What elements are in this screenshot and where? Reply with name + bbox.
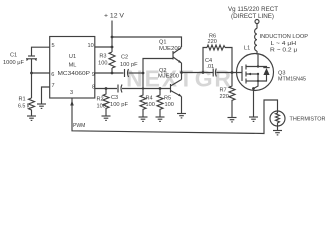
svg-text:C3: C3 xyxy=(111,95,118,101)
ground under thermistor xyxy=(273,131,282,135)
svg-text:L ~ 4 μH: L ~ 4 μH xyxy=(271,41,297,47)
ground under Q3 source xyxy=(249,117,258,121)
node junction dot C1 xyxy=(30,72,33,75)
wire R3 bottom to line A xyxy=(111,68,113,73)
mosfet Q3 drain stub xyxy=(246,55,258,67)
svg-text:U1: U1 xyxy=(69,54,76,60)
wire +12V rail down xyxy=(111,37,113,52)
wire top rail to Q1 collector xyxy=(112,37,182,47)
node junction dot C2 right xyxy=(142,72,145,75)
resistor R1 xyxy=(29,98,35,116)
svg-text:R3: R3 xyxy=(99,54,106,60)
ground under R4 xyxy=(139,117,148,121)
svg-text:NEXTGR: NEXTGR xyxy=(126,66,233,92)
arrowhead PWM up xyxy=(70,101,74,106)
mosfet Q3 source internal wire xyxy=(254,74,259,89)
wire pin10 stub xyxy=(95,46,112,48)
transistor Q2 xyxy=(170,84,172,93)
svg-text:220: 220 xyxy=(220,94,229,100)
svg-text:C1: C1 xyxy=(10,53,17,59)
resistor R7 xyxy=(229,73,235,118)
svg-text:R ~ 0.2 μ: R ~ 0.2 μ xyxy=(270,48,297,54)
mosfet Q3 channel segments xyxy=(245,65,247,70)
ground under Q2 xyxy=(177,114,186,118)
node junction dot lineA rail xyxy=(111,72,114,75)
node junction dot source xyxy=(252,87,255,90)
svg-text:9: 9 xyxy=(92,72,95,78)
node junction dot R6 right xyxy=(231,71,234,74)
svg-text:10: 10 xyxy=(88,43,94,49)
wire pin6 stub xyxy=(32,72,50,74)
wire +12V lead xyxy=(111,21,113,38)
mosfet Q3 source stub xyxy=(246,80,258,82)
svg-text:100: 100 xyxy=(165,102,174,108)
capacitor C1 xyxy=(28,55,35,57)
svg-text:6.5 k: 6.5 k xyxy=(18,104,30,110)
svg-text:R2: R2 xyxy=(97,97,104,103)
svg-text:L1: L1 xyxy=(244,46,250,52)
resistor R5 xyxy=(157,89,163,118)
svg-text:R5: R5 xyxy=(164,96,171,102)
wire pin3 PWM line xyxy=(72,98,278,134)
svg-text:8: 8 xyxy=(92,84,95,90)
svg-text:ML: ML xyxy=(69,63,77,69)
wire Q2 emitter down xyxy=(181,97,183,114)
svg-text:R7: R7 xyxy=(220,88,227,94)
node junction dot gate node xyxy=(180,71,183,74)
mosfet Q3 circle xyxy=(237,54,274,91)
wire line B pin8 xyxy=(95,88,117,90)
wire pin7 stub xyxy=(42,87,50,104)
mosfet Q3 gate bar xyxy=(241,66,243,81)
svg-text:100: 100 xyxy=(98,61,107,67)
capacitor C4 xyxy=(212,69,214,77)
wire pin5 stub xyxy=(32,47,50,56)
svg-text:3: 3 xyxy=(70,90,73,96)
resistor R2 xyxy=(103,89,109,117)
mosfet Q3 bulk stub with arrow xyxy=(246,73,258,75)
svg-text:R4: R4 xyxy=(146,96,153,102)
svg-text:100 pF: 100 pF xyxy=(110,102,129,108)
capacitor C3 xyxy=(117,85,119,93)
wire Q1 emitter down xyxy=(181,63,183,80)
svg-text:Q1: Q1 xyxy=(159,40,166,46)
node junction dot R5 xyxy=(159,87,162,90)
svg-text:INDUCTION LOOP: INDUCTION LOOP xyxy=(260,34,309,40)
wire thermistor to ground xyxy=(277,126,279,131)
diode body D1 xyxy=(258,67,267,69)
svg-text:1000 μF: 1000 μF xyxy=(3,60,25,66)
ground under R2 xyxy=(102,116,111,120)
wire terminal to coil xyxy=(256,24,258,29)
svg-text:100: 100 xyxy=(146,102,155,108)
node junction small dot V1 line B xyxy=(142,87,144,89)
resistor R3 xyxy=(109,52,115,68)
capacitor C2 xyxy=(124,69,126,77)
svg-text:5: 5 xyxy=(52,43,55,49)
node junction dot R6 left xyxy=(202,71,205,74)
ground under R5 xyxy=(156,117,165,121)
svg-text:100 pF: 100 pF xyxy=(120,62,138,68)
wire source to ground xyxy=(253,89,255,118)
svg-text:220: 220 xyxy=(208,39,217,45)
svg-text:MTM15N45: MTM15N45 xyxy=(278,76,306,82)
svg-text:MC34060P: MC34060P xyxy=(58,71,91,77)
wire line A right xyxy=(129,72,144,74)
node junction dot R2 xyxy=(105,87,108,90)
transistor Q1 xyxy=(172,51,174,60)
svg-text:MJE200: MJE200 xyxy=(159,46,181,52)
ground under R7 xyxy=(228,118,237,122)
svg-text:+ 12 V: + 12 V xyxy=(104,14,124,20)
ground under R1 xyxy=(27,116,36,120)
svg-text:.01: .01 xyxy=(206,64,214,70)
wire coil to drain xyxy=(256,51,258,55)
wire pin9 stub / line A left xyxy=(95,72,124,74)
svg-text:C2: C2 xyxy=(121,55,128,61)
svg-text:PWM: PWM xyxy=(73,123,85,129)
wire C1 to R1 xyxy=(31,73,33,98)
resistor R4 xyxy=(140,89,146,118)
svg-text:100: 100 xyxy=(97,104,106,110)
ground pin7 xyxy=(37,104,46,108)
svg-text:6: 6 xyxy=(51,72,54,78)
node junction dot pin10 xyxy=(111,46,114,49)
svg-text:MJE200: MJE200 xyxy=(158,74,179,80)
node junction dot top rail xyxy=(111,36,114,39)
inductor L1 xyxy=(255,29,257,51)
svg-text:7: 7 xyxy=(52,83,55,89)
wire vertical V1 to Q1 base and down xyxy=(143,59,173,89)
wire gate line xyxy=(182,72,214,74)
terminal circle top xyxy=(255,20,259,24)
svg-text:R1: R1 xyxy=(19,97,26,103)
resistor R6 loop xyxy=(203,48,207,73)
svg-text:THERMISTOR: THERMISTOR xyxy=(290,117,326,123)
svg-text:(DIRECT LINE): (DIRECT LINE) xyxy=(231,14,274,20)
svg-text:Vg 115/220 RECT: Vg 115/220 RECT xyxy=(228,7,278,13)
op-amp U1 box MC34060P xyxy=(50,37,95,99)
wire line B mid xyxy=(122,88,171,90)
thermistor circle xyxy=(270,111,285,126)
